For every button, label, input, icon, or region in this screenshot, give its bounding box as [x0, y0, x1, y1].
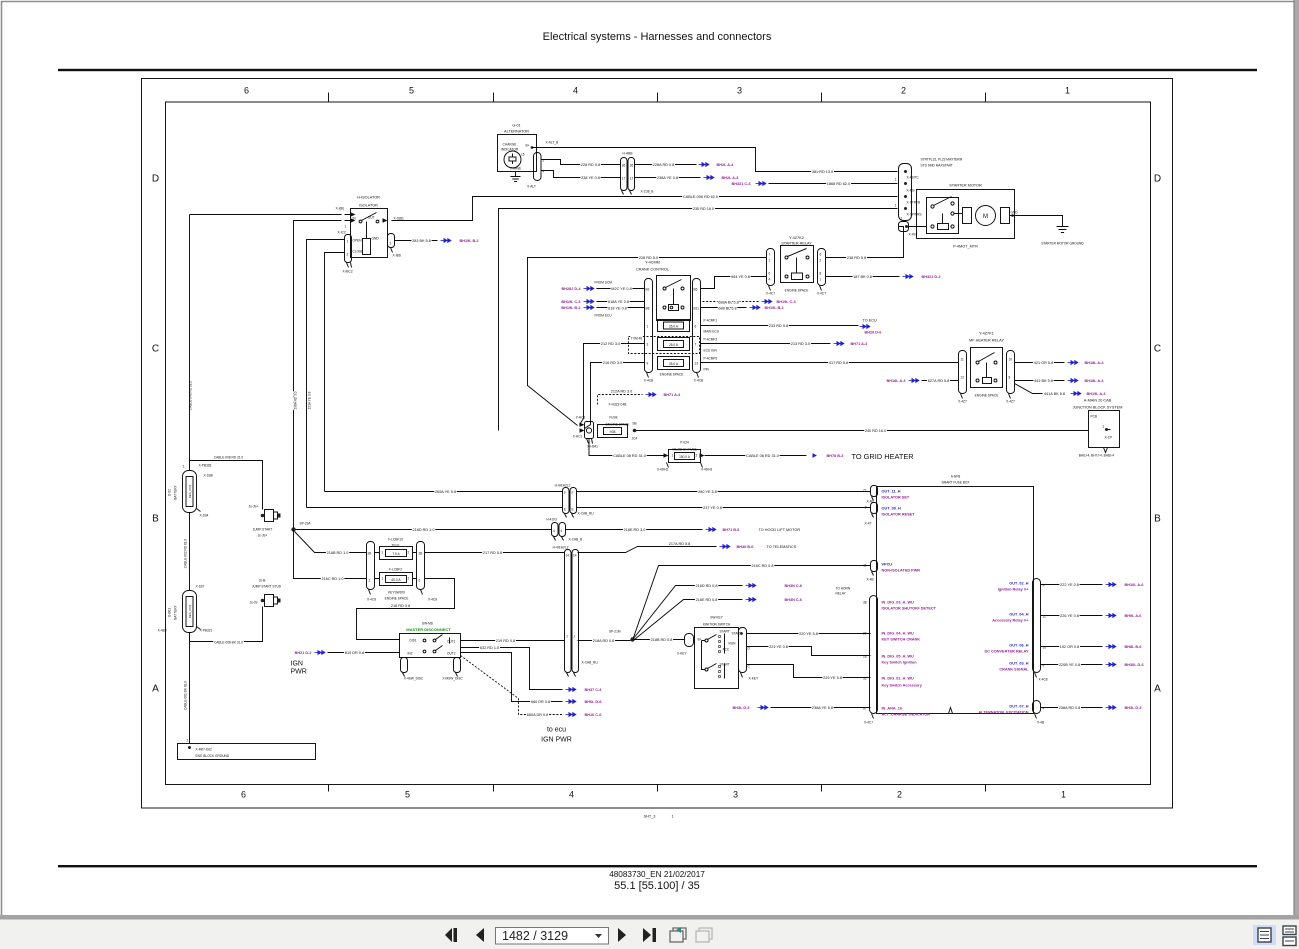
svg-text:26: 26: [622, 164, 626, 168]
svg-text:688 BL 5.8: 688 BL 5.8: [718, 306, 736, 310]
svg-text:SHT_3: SHT_3: [644, 815, 656, 819]
svg-text:BATTERY: BATTERY: [174, 484, 178, 499]
svg-text:2: 2: [347, 253, 349, 257]
wire 417 RD: [701, 362, 959, 364]
svg-text:187 BK 0.8: 187 BK 0.8: [853, 275, 872, 279]
LCBF connector left: [367, 542, 375, 590]
svg-text:17: 17: [622, 177, 626, 181]
svg-text:77: 77: [863, 489, 867, 493]
battery D-B01: [158, 591, 213, 633]
svg-text:BH18L A-4: BH18L A-4: [1085, 361, 1105, 365]
svg-text:5: 5: [409, 86, 414, 96]
wire to grid heater: [705, 455, 807, 457]
svg-text:RELAY: RELAY: [836, 592, 847, 596]
svg-text:30: 30: [863, 632, 867, 636]
wire B+ to starter: [532, 148, 898, 172]
svg-text:BH6L D-6: BH6L D-6: [585, 700, 602, 704]
svg-text:JUMP START STUD: JUMP START STUD: [252, 585, 282, 589]
svg-text:Y-4Z7K1: Y-4Z7K1: [979, 332, 994, 336]
svg-text:BH19L C-3: BH19L C-3: [777, 300, 796, 304]
fuse P-4CMF1: [658, 319, 720, 334]
svg-text:D: D: [1154, 174, 1161, 185]
dashed 212A RD: [598, 395, 643, 405]
svg-text:BH10L A-6: BH10L A-6: [1125, 583, 1144, 587]
svg-text:233 RD 5.8: 233 RD 5.8: [769, 324, 788, 328]
fuse F-LCBF10: [380, 538, 413, 560]
svg-text:IGNITION SWITCH: IGNITION SWITCH: [703, 623, 731, 627]
wire 216D RD row: [296, 529, 552, 531]
svg-text:PCB: PCB: [1091, 415, 1098, 419]
svg-text:X-MSW_DISC: X-MSW_DISC: [442, 677, 463, 681]
svg-text:26: 26: [630, 164, 634, 168]
svg-text:BH19L B-2: BH19L B-2: [765, 306, 784, 310]
svg-text:BH36 B-6: BH36 B-6: [737, 545, 754, 549]
svg-text:X-4C7: X-4C7: [817, 292, 826, 296]
svg-text:IGN PWR: IGN PWR: [541, 737, 572, 744]
svg-text:67: 67: [863, 707, 867, 711]
svg-text:2: 2: [897, 790, 902, 800]
svg-text:CLOSE: CLOSE: [353, 250, 364, 254]
LCBF connector right: [417, 542, 425, 590]
svg-text:7: 7: [769, 253, 771, 257]
svg-text:1: 1: [347, 240, 349, 244]
svg-text:START: START: [720, 630, 730, 634]
jump start stud: [250, 579, 282, 607]
svg-text:VPCU: VPCU: [882, 563, 893, 567]
svg-text:3: 3: [737, 86, 742, 96]
svg-text:B+: B+: [698, 638, 702, 642]
svg-text:237 YE 0.8: 237 YE 0.8: [703, 506, 722, 510]
wire 632 RD: [461, 648, 563, 690]
svg-text:1: 1: [1065, 86, 1070, 96]
svg-text:Accessory Relay V+: Accessory Relay V+: [992, 619, 1029, 623]
svg-text:ALT_CHARGE_INDICATOR: ALT_CHARGE_INDICATOR: [882, 713, 931, 717]
svg-text:X-4B: X-4B: [867, 578, 874, 582]
svg-text:X-ALT: X-ALT: [527, 185, 536, 189]
svg-text:TO HORN: TO HORN: [836, 587, 851, 591]
svg-text:G-01: G-01: [512, 124, 520, 128]
svg-text:BH28J D-4: BH28J D-4: [562, 287, 582, 291]
svg-text:X-4DH3: X-4DH3: [701, 468, 713, 472]
ground (alternator): [511, 172, 521, 182]
svg-text:SP-21M: SP-21M: [609, 630, 621, 634]
svg-text:IGN: IGN: [291, 661, 303, 668]
wire alt pin2: [541, 160, 621, 165]
right labels: [978, 582, 1029, 715]
wire 228 RD 5.0: [528, 258, 767, 426]
svg-text:E: E: [564, 508, 566, 512]
schematic inner frame: [166, 102, 1151, 785]
svg-text:STARTER MOTOR: STARTER MOTOR: [949, 184, 982, 188]
svg-text:F: F: [572, 491, 574, 495]
svg-text:632 RD 1.0: 632 RD 1.0: [480, 646, 499, 650]
wire 238A: [635, 177, 701, 179]
svg-text:60.0 A: 60.0 A: [391, 578, 401, 582]
svg-text:ECU IGN: ECU IGN: [704, 349, 718, 353]
svg-text:32: 32: [863, 677, 867, 681]
svg-text:X-4C8: X-4C8: [367, 598, 376, 602]
svg-text:217A RD 5.8: 217A RD 5.8: [669, 542, 691, 546]
svg-text:CABLE-006 RD 62.0: CABLE-006 RD 62.0: [683, 195, 718, 199]
svg-text:BH71 A-4: BH71 A-4: [851, 342, 869, 346]
isolator gnd connector: [388, 234, 402, 258]
svg-text:13: 13: [695, 362, 699, 366]
svg-text:2B: 2B: [419, 552, 423, 556]
svg-text:213 RD 3.0: 213 RD 3.0: [791, 342, 810, 346]
svg-text:212 RD 3.0: 212 RD 3.0: [601, 342, 620, 346]
wire 216 RD: [585, 363, 645, 429]
master disconnect switch SW-MD: [400, 622, 464, 681]
svg-text:P-4CMF3: P-4CMF3: [704, 338, 718, 342]
svg-text:2: 2: [696, 454, 698, 458]
svg-text:C: C: [152, 344, 159, 355]
wire 219 RD / 218A RD row: [461, 640, 565, 642]
svg-text:BH8L B-6: BH8L B-6: [1125, 645, 1142, 649]
svg-text:X-STRTB: X-STRTB: [907, 201, 921, 205]
svg-text:14: 14: [573, 554, 577, 558]
wire 421 OR: [1015, 362, 1065, 364]
svg-text:660A DR 0.8: 660A DR 0.8: [527, 713, 549, 717]
svg-text:269A YE 5.8: 269A YE 5.8: [435, 490, 456, 494]
svg-text:421 OR 5.8: 421 OR 5.8: [1034, 361, 1053, 365]
svg-text:OUT_07_H: OUT_07_H: [1009, 705, 1028, 709]
svg-text:441 BK 5.8: 441 BK 5.8: [1034, 379, 1053, 383]
fuse P-024: [657, 441, 713, 472]
svg-text:X-IBD: X-IBD: [393, 254, 402, 258]
svg-text:X-4Z7: X-4Z7: [1006, 400, 1015, 404]
svg-text:GND: GND: [1011, 211, 1019, 215]
svg-text:1: 1: [382, 551, 384, 555]
svg-text:X-PB321: X-PB321: [200, 629, 213, 633]
svg-text:INDICATOR: INDICATOR: [501, 148, 519, 152]
ruler ticks: [329, 93, 986, 792]
svg-text:4: 4: [769, 278, 771, 282]
svg-text:Electrical systems - Harnesses: Electrical systems - Harnesses and conne…: [543, 31, 772, 43]
svg-text:IN_DIG_04_H_WU: IN_DIG_04_H_WU: [882, 632, 915, 636]
svg-text:1: 1: [382, 577, 384, 581]
svg-text:OUT_11_H: OUT_11_H: [882, 490, 901, 494]
svg-text:IN_DIG_03_H_WU: IN_DIG_03_H_WU: [882, 601, 915, 605]
svg-text:618A YE 0.8: 618A YE 0.8: [608, 300, 629, 304]
wire 660 DR: [461, 653, 563, 702]
svg-text:X-4B: X-4B: [1037, 721, 1044, 725]
svg-text:X-CP: X-CP: [1105, 436, 1113, 440]
svg-text:CABLE 08 RD 31.0: CABLE 08 RD 31.0: [746, 454, 779, 458]
wire to P-024 fuse: [589, 439, 665, 456]
svg-text:DC CONVERTER RELAY: DC CONVERTER RELAY: [985, 650, 1029, 654]
isolator left connector: [342, 235, 353, 274]
svg-text:1: 1: [647, 325, 649, 329]
node SB: [633, 429, 637, 433]
svg-text:RUN: RUN: [729, 642, 737, 646]
svg-text:216B RD 1.0: 216B RD 1.0: [327, 551, 349, 555]
svg-text:ENGINE SPACE: ENGINE SPACE: [385, 597, 409, 601]
svg-text:4: 4: [553, 529, 555, 533]
svg-text:7.5 A: 7.5 A: [392, 552, 400, 556]
svg-text:A: A: [152, 684, 159, 695]
svg-text:X-1BB: X-1BB: [204, 474, 213, 478]
scrollbar column: [1294, 0, 1299, 916]
svg-text:F: F: [564, 491, 566, 495]
svg-text:GND: GND: [372, 237, 380, 241]
wire 216C down: [294, 530, 367, 579]
svg-text:220 YE 5.8: 220 YE 5.8: [799, 632, 818, 636]
svg-text:11: 11: [961, 358, 965, 362]
top rule: [58, 69, 1257, 71]
svg-text:228A RD 0.8: 228A RD 0.8: [653, 163, 675, 167]
svg-text:CHARGE: CHARGE: [503, 143, 517, 147]
cable between batteries: [189, 513, 191, 591]
svg-text:2: 2: [369, 579, 371, 583]
svg-text:KEY SWITCH CRANK: KEY SWITCH CRANK: [882, 638, 921, 642]
svg-text:DIS1: DIS1: [410, 639, 417, 643]
svg-text:219 RD 0.8: 219 RD 0.8: [496, 639, 515, 643]
wire battery+ up and to jump start: [190, 461, 263, 510]
svg-text:X-4C8: X-4C8: [1039, 678, 1048, 682]
wire isolator pin2 vertical: [325, 253, 345, 492]
svg-text:4: 4: [561, 529, 563, 533]
cable to ground: [189, 633, 191, 744]
wire isolator OUT / CABLE-006: [392, 197, 898, 221]
svg-text:X-MS: X-MS: [907, 189, 915, 193]
svg-text:ALTERNATOR_EXCITATION: ALTERNATOR_EXCITATION: [978, 711, 1028, 715]
svg-text:X-4B3: X-4B3: [158, 629, 167, 633]
svg-text:9: 9: [647, 362, 649, 366]
svg-text:964 YE 0.8: 964 YE 0.8: [731, 275, 750, 279]
svg-text:2: 2: [408, 577, 410, 581]
svg-text:BH2L A-3: BH2L A-3: [722, 176, 739, 180]
fuse F-LCBF2: [380, 568, 413, 586]
svg-text:X-IC2: X-IC2: [338, 231, 346, 235]
svg-text:STRTPL15, PL23 MAXTERM: STRTPL15, PL23 MAXTERM: [921, 158, 963, 162]
jump start J+: [249, 505, 281, 538]
svg-text:1: 1: [672, 454, 674, 458]
svg-text:B2: B2: [646, 288, 650, 292]
svg-text:1868 RD 62.0: 1868 RD 62.0: [827, 182, 850, 186]
svg-text:IN_ANA_16: IN_ANA_16: [882, 707, 902, 711]
svg-text:X-4ST: X-4ST: [909, 233, 918, 237]
svg-text:NON-ISOLATED PWR: NON-ISOLATED PWR: [882, 569, 921, 573]
svg-text:238A RD 0.8: 238A RD 0.8: [1059, 706, 1081, 710]
svg-text:Js-B-: Js-B-: [259, 579, 266, 583]
svg-text:BH3N C-6: BH3N C-6: [785, 584, 803, 588]
svg-text:BH16 C-6: BH16 C-6: [585, 713, 602, 717]
svg-text:6: 6: [241, 790, 246, 800]
svg-text:235 RD 16.0: 235 RD 16.0: [693, 207, 714, 211]
svg-text:X-HC1: X-HC1: [573, 435, 583, 439]
svg-text:660 DR 0.8: 660 DR 0.8: [531, 700, 550, 704]
svg-text:X-1B7: X-1B7: [196, 585, 205, 589]
svg-text:A-MAIN 20 CAB: A-MAIN 20 CAB: [1084, 399, 1112, 403]
connector H-4103: [546, 518, 582, 542]
wire 217 RD: [425, 552, 565, 554]
svg-text:CRANK SIGNAL: CRANK SIGNAL: [999, 668, 1029, 672]
alternator G-01: [498, 124, 537, 172]
svg-text:BH78 B-3: BH78 B-3: [827, 454, 844, 458]
wire 441 BK: [1015, 380, 1065, 382]
ruler numbers bottom: [241, 790, 1066, 800]
svg-text:BH26 D-6: BH26 D-6: [865, 331, 882, 335]
svg-text:BH3N C-6: BH3N C-6: [785, 598, 803, 602]
svg-text:F-LCBF10: F-LCBF10: [388, 538, 403, 542]
svg-text:Key Switch Accessory: Key Switch Accessory: [882, 684, 923, 688]
svg-text:238A YE 0.8: 238A YE 0.8: [657, 176, 678, 180]
svg-text:OUT2: OUT2: [447, 652, 456, 656]
svg-text:216E RD 3.0: 216E RD 3.0: [624, 528, 646, 532]
svg-text:IN2: IN2: [408, 652, 413, 656]
svg-text:8: 8: [1009, 376, 1011, 380]
svg-text:BH18L A-3: BH18L A-3: [887, 379, 906, 383]
svg-text:14: 14: [566, 554, 570, 558]
svg-text:48083730_EN 21/02/2017: 48083730_EN 21/02/2017: [609, 870, 705, 879]
wire battery cable to isolator IN: [190, 214, 342, 216]
svg-text:KEYSW200: KEYSW200: [388, 591, 405, 595]
svg-text:1: 1: [671, 815, 673, 819]
svg-text:150.0 A: 150.0 A: [679, 455, 691, 459]
starter motor box: [917, 184, 1019, 239]
svg-text:1: 1: [1061, 790, 1066, 800]
ground (starter motor): [1057, 223, 1069, 233]
svg-text:H-4/EH2L2: H-4/EH2L2: [555, 484, 571, 488]
svg-text:FUSE: FUSE: [609, 416, 618, 420]
svg-text:ISOLATOR: ISOLATOR: [359, 204, 378, 208]
svg-text:OPEN: OPEN: [353, 239, 363, 243]
junction block A-MAIN 20 CAB: [1073, 399, 1123, 458]
svg-text:PHASE: PHASE: [511, 167, 522, 171]
svg-text:TO TELEMATICS: TO TELEMATICS: [767, 545, 797, 549]
wire 281 BK: [395, 240, 438, 242]
svg-text:X-4CB: X-4CB: [644, 379, 653, 383]
svg-text:X-ALT_B: X-ALT_B: [546, 141, 559, 145]
svg-text:ENGINE SPACE: ENGINE SPACE: [975, 394, 999, 398]
svg-text:BH21 D-2: BH21 D-2: [295, 651, 312, 655]
svg-text:BH37 C-4: BH37 C-4: [585, 688, 603, 692]
svg-text:2B: 2B: [368, 552, 372, 556]
svg-text:P-4CMF5: P-4CMF5: [704, 357, 718, 361]
svg-text:280 YE 5.8: 280 YE 5.8: [698, 490, 717, 494]
svg-text:BH9L A-6: BH9L A-6: [1125, 614, 1142, 618]
svg-text:CABLE 08 RD 31.0: CABLE 08 RD 31.0: [613, 454, 646, 458]
svg-text:226 YE 0.8: 226 YE 0.8: [1060, 614, 1079, 618]
svg-text:6: 6: [695, 325, 697, 329]
svg-text:218B RD 0.8: 218B RD 0.8: [651, 638, 673, 642]
wire 228A: [635, 164, 697, 166]
svg-text:X-M07-D02: X-M07-D02: [196, 748, 213, 752]
ruler letters: [152, 174, 1161, 695]
svg-text:H-4/EH2L2: H-4/EH2L2: [553, 546, 569, 550]
svg-text:ENGINE SPACE: ENGINE SPACE: [785, 289, 809, 293]
svg-text:SMART FUSE BOX: SMART FUSE BOX: [941, 481, 970, 485]
svg-text:1482 / 3129: 1482 / 3129: [502, 929, 568, 943]
svg-text:Key Switch Ignition: Key Switch Ignition: [882, 661, 918, 665]
wire 441A BK: [1015, 384, 1043, 394]
svg-text:CRANK CONTROL: CRANK CONTROL: [636, 268, 669, 272]
svg-text:810 DR 0.8: 810 DR 0.8: [345, 651, 364, 655]
svg-text:X-KEY: X-KEY: [749, 677, 759, 681]
svg-text:CABLE-001 BK 61.0: CABLE-001 BK 61.0: [184, 681, 188, 710]
svg-text:8: 8: [820, 272, 822, 276]
svg-text:NEG_POS: NEG_POS: [188, 605, 192, 619]
left labels: [882, 490, 937, 717]
relay Y-4Z7K1 MF HEATER RELAY: [958, 332, 1015, 404]
svg-text:NEG_POS: NEG_POS: [188, 485, 192, 499]
svg-text:JUMP START: JUMP START: [253, 528, 273, 532]
svg-text:TXM 48: TXM 48: [631, 337, 642, 341]
svg-text:BH19L A-3: BH19L A-3: [1087, 392, 1106, 396]
svg-text:X-CAB_RLI: X-CAB_RLI: [578, 512, 595, 516]
svg-text:MASTER DISCONNECT: MASTER DISCONNECT: [406, 627, 451, 632]
wire 235 RD 16.0: [499, 209, 898, 431]
svg-text:OUT_06_H: OUT_06_H: [1009, 644, 1028, 648]
svg-text:IN_DIG_02_H_WU: IN_DIG_02_H_WU: [882, 677, 915, 681]
svg-text:OUT: OUT: [368, 216, 375, 220]
svg-text:ISOLATOR SET: ISOLATOR SET: [882, 496, 910, 500]
svg-text:38: 38: [863, 601, 867, 605]
svg-text:ENGINE SPACE: ENGINE SPACE: [660, 373, 684, 377]
svg-text:X-4SITC: X-4SITC: [907, 176, 920, 180]
svg-text:627A RD 5.8: 627A RD 5.8: [928, 379, 950, 383]
svg-text:Js-JS+: Js-JS+: [249, 505, 259, 509]
svg-text:BH2L A-4: BH2L A-4: [717, 163, 735, 167]
svg-text:35.0 A: 35.0 A: [669, 325, 679, 329]
svg-text:417 RD 5.8: 417 RD 5.8: [829, 361, 848, 365]
svg-text:BH3L D-3: BH3L D-3: [1125, 706, 1142, 710]
wire 187 BK: [826, 276, 900, 278]
svg-text:X-4C8: X-4C8: [428, 598, 437, 602]
svg-text:X-1B4: X-1B4: [200, 514, 209, 518]
wire 964 YE: [701, 277, 767, 289]
svg-text:238 RD 5.8: 238 RD 5.8: [847, 256, 866, 260]
svg-text:15: 15: [521, 153, 525, 157]
svg-text:BH19L B-2: BH19L B-2: [460, 239, 479, 243]
fan wires: [634, 566, 871, 638]
svg-text:Ignition Relay V+: Ignition Relay V+: [998, 588, 1029, 592]
svg-text:B6: B6: [694, 288, 698, 292]
wire 220 YE: [747, 633, 871, 635]
svg-text:238A YE 5.8: 238A YE 5.8: [812, 706, 833, 710]
svg-text:217 RD 5.8: 217 RD 5.8: [483, 551, 502, 555]
svg-text:9: 9: [865, 506, 867, 510]
svg-text:4: 4: [569, 790, 574, 800]
svg-text:SW-MD: SW-MD: [422, 622, 434, 626]
relay Y-4CMM CRANK CONTROL: [636, 261, 703, 383]
svg-text:E: E: [572, 508, 574, 512]
fuse box A-NFB SMART FUSE BOX: [877, 475, 1034, 714]
svg-text:X-4SW_DISC: X-4SW_DISC: [404, 677, 424, 681]
svg-text:216D RD 0.8: 216D RD 0.8: [696, 584, 718, 588]
svg-text:3: 3: [390, 242, 392, 246]
svg-text:ISOLATOR RESET: ISOLATOR RESET: [882, 513, 916, 517]
svg-text:238 YE 0.8: 238 YE 0.8: [581, 176, 600, 180]
svg-text:PWR: PWR: [291, 669, 307, 676]
svg-text:1: 1: [1103, 425, 1105, 429]
svg-text:ACC: ACC: [723, 648, 730, 652]
svg-text:BH321 D-2: BH321 D-2: [922, 275, 941, 279]
svg-text:P-4MOT_MTR: P-4MOT_MTR: [953, 245, 978, 249]
svg-text:ISOLATOR SHUTOFF DETECT: ISOLATOR SHUTOFF DETECT: [882, 607, 937, 611]
svg-text:441A BK 5.8: 441A BK 5.8: [1044, 392, 1065, 396]
connector X-ALT: [527, 141, 558, 189]
svg-text:FROM UCM: FROM UCM: [595, 281, 613, 285]
svg-text:BH6J-4, BH7J-4, BH8J-4: BH6J-4, BH7J-4, BH8J-4: [1079, 454, 1115, 458]
wire 229 YE: [747, 665, 871, 678]
engine block ground bar: [178, 739, 316, 760]
svg-text:F-LCBF2: F-LCBF2: [389, 568, 402, 572]
svg-text:221A YE 0.8: 221A YE 0.8: [308, 391, 312, 409]
connector H-4/EH2L2 upper: [555, 484, 594, 518]
connector H-4MB: [621, 152, 654, 195]
svg-text:BH71 A-4: BH71 A-4: [664, 393, 682, 397]
